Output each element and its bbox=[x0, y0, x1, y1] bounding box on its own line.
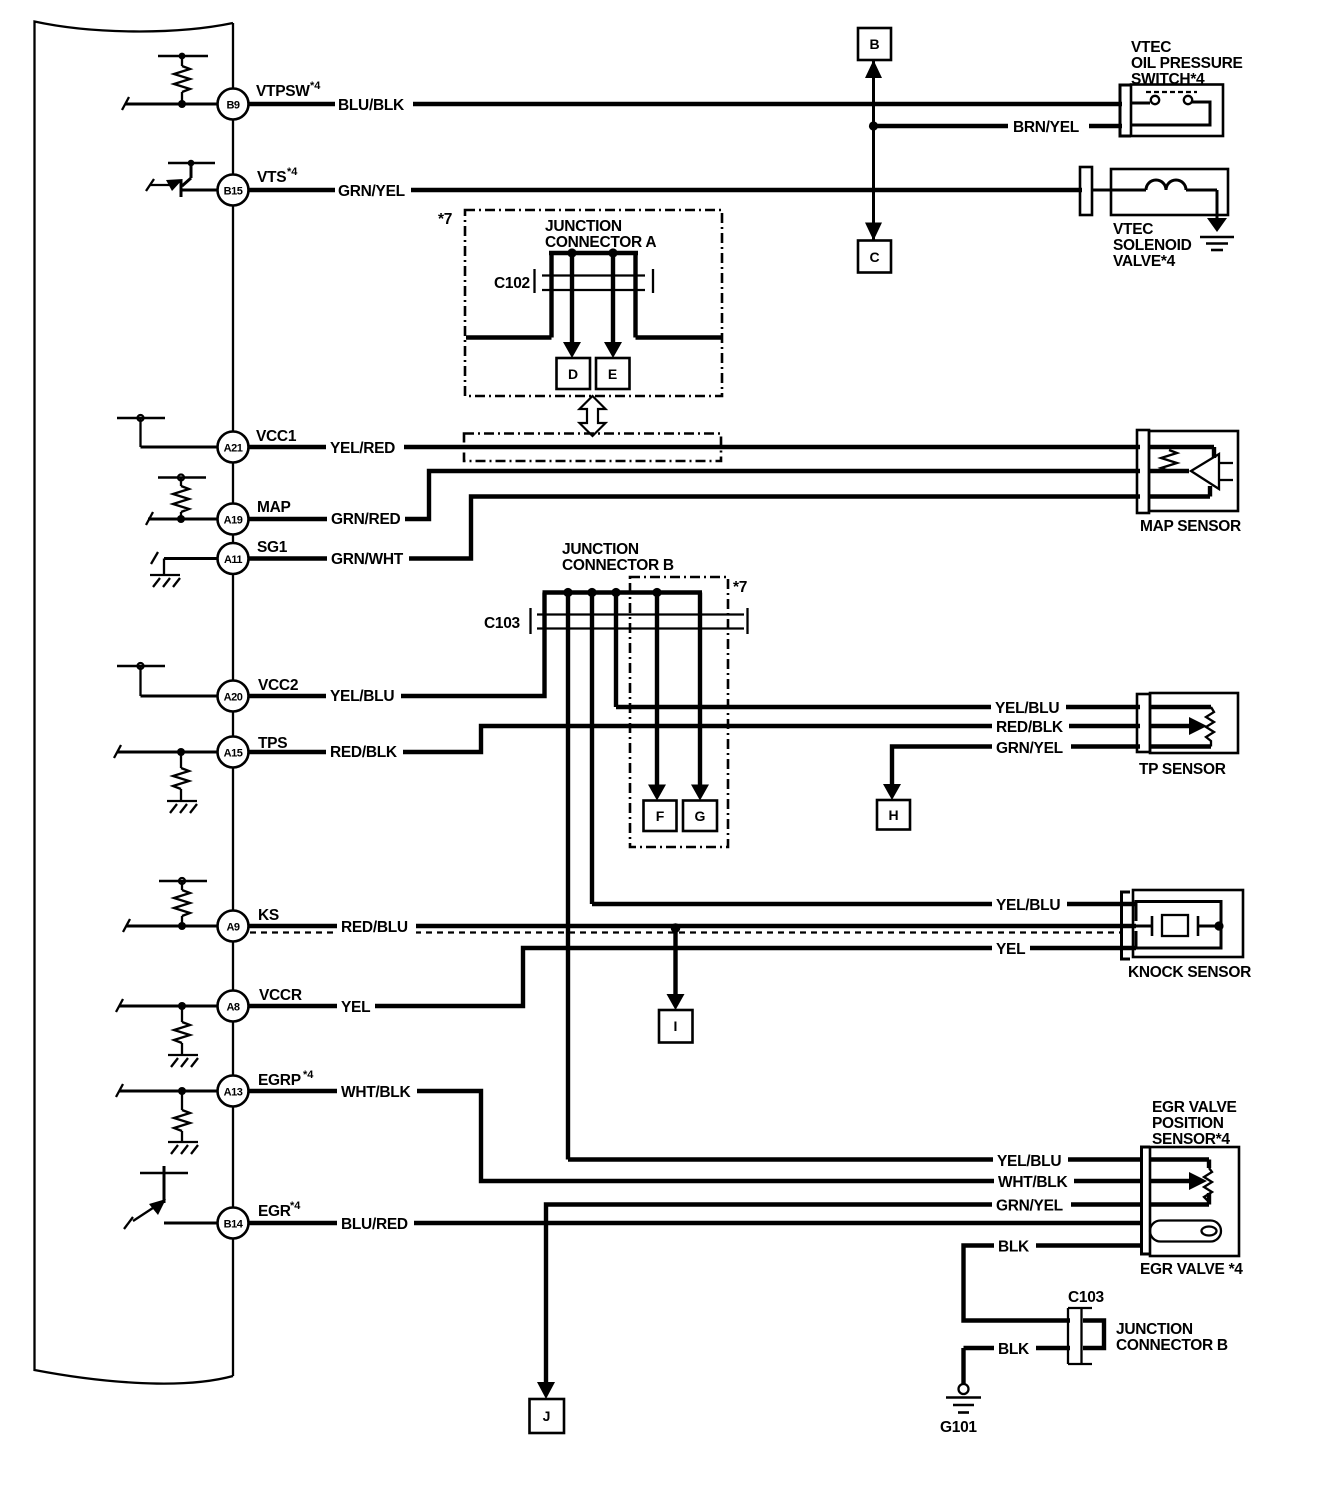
wire A21 YEL/RED bbox=[218, 445, 1140, 449]
label YEL knock bbox=[992, 939, 1030, 957]
svg-text:C: C bbox=[869, 249, 879, 265]
box F bbox=[644, 801, 677, 832]
symbol A20 VCC rail bbox=[117, 663, 218, 696]
symbol B14 driver transistor bbox=[124, 1166, 218, 1229]
svg-text:BLK: BLK bbox=[998, 1341, 1030, 1358]
svg-text:JUNCTION: JUNCTION bbox=[562, 541, 639, 558]
svg-text:KNOCK SENSOR: KNOCK SENSOR bbox=[1128, 964, 1251, 981]
node dot I branch bbox=[671, 923, 681, 933]
symbol A9 pull-up resistor bbox=[123, 878, 218, 932]
svg-text:*4: *4 bbox=[310, 80, 321, 92]
svg-text:YEL/BLU: YEL/BLU bbox=[997, 1153, 1061, 1170]
knock sensor connector bracket bbox=[1122, 892, 1131, 959]
connector C103 strip bbox=[531, 608, 748, 634]
svg-text:BRN/YEL: BRN/YEL bbox=[1013, 119, 1079, 136]
pin B15 bbox=[218, 175, 249, 206]
wire A13 WHT/BLK to EGR sensor bbox=[218, 1091, 1142, 1181]
label RED/BLK bbox=[326, 742, 403, 761]
svg-text:BLK: BLK bbox=[998, 1239, 1030, 1256]
svg-text:SOLENOID: SOLENOID bbox=[1113, 237, 1192, 254]
ground at solenoid valve bbox=[1200, 218, 1234, 250]
arrow to G bbox=[691, 785, 709, 801]
wire BLK to C103 bbox=[964, 1246, 1143, 1321]
arrow to I bbox=[667, 994, 685, 1010]
junction connector A bus bar and pins bbox=[549, 248, 638, 344]
pin A19 bbox=[218, 504, 249, 535]
svg-text:A19: A19 bbox=[224, 515, 243, 527]
svg-text:B9: B9 bbox=[226, 100, 239, 112]
svg-text:VTEC: VTEC bbox=[1131, 39, 1171, 56]
junction connector A C102 harness wire left bbox=[466, 335, 552, 339]
symbol A8 pull-down resistor bbox=[116, 999, 218, 1067]
svg-text:JUNCTION: JUNCTION bbox=[545, 218, 622, 235]
wire A8 YEL to knock sensor bbox=[218, 948, 1136, 1006]
svg-text:G: G bbox=[695, 808, 706, 824]
pin A20 bbox=[218, 681, 249, 712]
label YEL/RED bbox=[326, 438, 404, 457]
wire C103 to G vertical bbox=[698, 593, 702, 788]
svg-text:*7: *7 bbox=[438, 211, 452, 228]
svg-text:C102: C102 bbox=[494, 275, 530, 292]
svg-text:A20: A20 bbox=[224, 692, 243, 704]
svg-text:RED/BLU: RED/BLU bbox=[341, 919, 408, 936]
svg-text:TP SENSOR: TP SENSOR bbox=[1139, 761, 1226, 778]
VTEC solenoid valve bbox=[1092, 169, 1228, 220]
wire C103 to knock YEL/BLU vertical bbox=[590, 593, 594, 905]
wire EGR YEL/BLU bbox=[568, 1157, 1142, 1161]
svg-text:VALVE*4: VALVE*4 bbox=[1113, 253, 1176, 270]
knock sensor bbox=[1133, 890, 1243, 957]
VTEC oil pressure switch bbox=[1131, 85, 1223, 137]
svg-text:EGR VALVE: EGR VALVE bbox=[1152, 1099, 1237, 1116]
pin B9 bbox=[218, 89, 249, 120]
C103 staple link bbox=[1083, 1321, 1104, 1349]
svg-text:B15: B15 bbox=[224, 186, 243, 198]
svg-text:SENSOR*4: SENSOR*4 bbox=[1152, 1131, 1230, 1148]
box E bbox=[596, 358, 630, 389]
svg-text:SG1: SG1 bbox=[257, 539, 288, 556]
box G bbox=[683, 801, 717, 832]
symbol A19 pull-up resistor bbox=[146, 475, 218, 526]
VTEC oil pressure switch connector bracket bbox=[1120, 85, 1131, 136]
label WHT/BLK EGR bbox=[994, 1172, 1074, 1190]
svg-text:VTPSW: VTPSW bbox=[256, 83, 310, 100]
MAP sensor bbox=[1149, 431, 1238, 511]
svg-text:A15: A15 bbox=[224, 748, 243, 760]
junction connector B bus bar bbox=[543, 590, 703, 594]
label WHT/BLK bbox=[337, 1081, 417, 1101]
box J bbox=[530, 1399, 565, 1433]
svg-text:TPS: TPS bbox=[258, 735, 287, 752]
svg-text:CONNECTOR B: CONNECTOR B bbox=[1116, 1337, 1228, 1354]
box I bbox=[659, 1010, 693, 1043]
box D bbox=[557, 358, 591, 389]
svg-text:B: B bbox=[869, 36, 879, 52]
wire B15 GRN/YEL bbox=[218, 188, 1082, 192]
svg-text:YEL: YEL bbox=[341, 999, 370, 1016]
svg-text:G101: G101 bbox=[940, 1419, 977, 1436]
svg-text:WHT/BLK: WHT/BLK bbox=[998, 1174, 1068, 1191]
label YEL/BLU bbox=[326, 686, 401, 705]
svg-text:VCCR: VCCR bbox=[259, 987, 302, 1004]
ground G101 bbox=[946, 1384, 981, 1413]
svg-text:E: E bbox=[608, 366, 617, 382]
arrow to F bbox=[648, 785, 666, 801]
symbol A21 VCC rail bbox=[117, 415, 218, 447]
svg-text:I: I bbox=[674, 1018, 678, 1034]
arrow down to C bbox=[865, 223, 882, 241]
svg-text:J: J bbox=[543, 1408, 551, 1424]
label BLK bbox=[994, 1236, 1036, 1255]
svg-text:KS: KS bbox=[258, 907, 279, 924]
svg-text:VCC1: VCC1 bbox=[256, 428, 297, 445]
svg-text:C103: C103 bbox=[1068, 1289, 1105, 1306]
label RED/BLK TP bbox=[992, 717, 1069, 735]
svg-text:CONNECTOR A: CONNECTOR A bbox=[545, 234, 656, 251]
arrow up to B bbox=[865, 60, 882, 78]
svg-text:OIL PRESSURE: OIL PRESSURE bbox=[1131, 55, 1243, 72]
label GRN/YEL EGR bbox=[992, 1195, 1071, 1214]
pin A11 bbox=[218, 543, 249, 574]
svg-text:EGR: EGR bbox=[258, 1203, 291, 1220]
svg-text:YEL/BLU: YEL/BLU bbox=[995, 700, 1059, 717]
svg-text:VTS: VTS bbox=[257, 169, 286, 186]
svg-text:RED/BLK: RED/BLK bbox=[996, 719, 1064, 736]
label BLK2 bbox=[994, 1338, 1036, 1357]
svg-text:MAP SENSOR: MAP SENSOR bbox=[1140, 518, 1241, 535]
wire A9 RED/BLU to knock sensor bbox=[218, 924, 1136, 928]
svg-text:GRN/YEL: GRN/YEL bbox=[338, 183, 405, 200]
VTEC solenoid valve connector bbox=[1080, 167, 1092, 215]
arrow to D bbox=[563, 342, 581, 358]
svg-text:GRN/YEL: GRN/YEL bbox=[996, 740, 1063, 757]
pin B14 bbox=[218, 1208, 249, 1239]
MAP sensor connector bbox=[1137, 430, 1149, 513]
wire EGR GRN/YEL to J bbox=[546, 1205, 1142, 1385]
label GRN/YEL TP bbox=[992, 738, 1071, 756]
symbol A13 pull-down resistor bbox=[116, 1084, 218, 1154]
svg-text:*4: *4 bbox=[290, 1200, 301, 1212]
symbol B15 driver transistor bbox=[146, 160, 218, 197]
svg-text:H: H bbox=[888, 807, 898, 823]
dashed harness bus box bbox=[464, 434, 721, 462]
wire A20 YEL/BLU to C103 bbox=[218, 593, 545, 697]
pin A15 bbox=[218, 737, 249, 768]
svg-text:BLU/RED: BLU/RED bbox=[341, 1216, 408, 1233]
label YEL/BLU TP bbox=[991, 698, 1066, 716]
svg-text:YEL: YEL bbox=[996, 941, 1025, 958]
svg-text:WHT/BLK: WHT/BLK bbox=[341, 1084, 411, 1101]
wire A15 RED/BLK to TP sensor bbox=[218, 726, 1140, 752]
wire BLK2 down to ground bbox=[961, 1348, 965, 1384]
pin A21 bbox=[218, 432, 249, 463]
symbol B9 internal pull-up bbox=[122, 53, 218, 110]
svg-text:F: F bbox=[656, 808, 665, 824]
svg-text:B14: B14 bbox=[224, 1219, 244, 1231]
label RED/BLU bbox=[337, 916, 416, 936]
pin A8 bbox=[218, 991, 249, 1022]
svg-text:A11: A11 bbox=[224, 554, 242, 566]
svg-text:*7: *7 bbox=[733, 579, 747, 596]
connector C102 strip bbox=[535, 269, 654, 293]
box H bbox=[877, 800, 910, 830]
svg-text:A13: A13 bbox=[224, 1087, 243, 1099]
svg-text:JUNCTION: JUNCTION bbox=[1116, 1321, 1193, 1338]
TP sensor connector bbox=[1137, 694, 1150, 752]
junction connector B option box *7 bbox=[630, 577, 728, 847]
wire BRN/YEL bbox=[874, 124, 1123, 128]
wire C103 to F vertical bbox=[655, 593, 659, 788]
svg-text:GRN/YEL: GRN/YEL bbox=[996, 1198, 1063, 1215]
label BRN/YEL bbox=[1008, 117, 1089, 136]
wire knock YEL/BLU bbox=[592, 902, 1136, 906]
svg-text:C103: C103 bbox=[484, 615, 521, 632]
svg-text:YEL/BLU: YEL/BLU bbox=[996, 897, 1060, 914]
TP sensor bbox=[1150, 693, 1238, 753]
wire A19 GRN/RED bbox=[218, 471, 1140, 519]
wire B14 BLU/RED bbox=[218, 1221, 1142, 1225]
svg-text:A9: A9 bbox=[226, 922, 239, 934]
svg-text:EGRP: EGRP bbox=[258, 1072, 301, 1089]
EGR valve position sensor and EGR valve bbox=[1150, 1147, 1239, 1256]
box C bbox=[858, 241, 891, 273]
symbol A15 pull-down resistor bbox=[114, 745, 218, 813]
label GRN/YEL bbox=[335, 181, 411, 200]
svg-text:GRN/RED: GRN/RED bbox=[331, 511, 400, 528]
arrow to E bbox=[604, 342, 622, 358]
node dots on C103 bar bbox=[563, 588, 572, 597]
svg-text:A21: A21 bbox=[224, 443, 243, 455]
svg-text:A8: A8 bbox=[226, 1002, 239, 1014]
wire branch to I bbox=[673, 928, 677, 996]
symbol A11 ground bbox=[150, 552, 218, 587]
label GRN/RED bbox=[327, 509, 405, 528]
ECM connector torn outline bbox=[35, 22, 234, 1384]
node junction dot BRN/YEL bbox=[869, 121, 878, 130]
arrow to H bbox=[883, 784, 901, 800]
svg-text:GRN/WHT: GRN/WHT bbox=[331, 551, 404, 568]
svg-text:YEL/BLU: YEL/BLU bbox=[330, 688, 394, 705]
connector C103 strip bottom bbox=[1068, 1308, 1092, 1364]
pin A9 bbox=[218, 911, 249, 942]
wire TP YEL/BLU bbox=[616, 705, 1140, 709]
double-headed option arrow bbox=[580, 396, 606, 436]
wire C103 to TP YEL/BLU vertical bbox=[614, 593, 618, 708]
label YEL bbox=[337, 996, 375, 1016]
svg-text:EGR VALVE *4: EGR VALVE *4 bbox=[1140, 1261, 1243, 1278]
svg-text:VCC2: VCC2 bbox=[258, 677, 298, 694]
label YEL/BLU EGR bbox=[993, 1151, 1068, 1169]
svg-text:*4: *4 bbox=[287, 166, 298, 178]
svg-text:SWITCH*4: SWITCH*4 bbox=[1131, 71, 1205, 88]
wire BLK2 to C103 bbox=[964, 1346, 1071, 1350]
wire TP GRN/YEL with H branch bbox=[892, 747, 1140, 787]
shield dashed line bbox=[250, 931, 1121, 933]
svg-text:CONNECTOR B: CONNECTOR B bbox=[562, 557, 674, 574]
junction connector A C102 harness wire right bbox=[636, 335, 722, 339]
pin A13 bbox=[218, 1076, 249, 1107]
label GRN/WHT bbox=[327, 549, 409, 568]
wire B9 BLU/BLK bbox=[218, 102, 1122, 106]
label YEL/BLU knock bbox=[992, 895, 1067, 913]
box B bbox=[858, 28, 891, 60]
ECM connector pin column line bbox=[232, 23, 234, 1376]
EGR sensor connector bracket bbox=[1142, 1147, 1151, 1254]
svg-text:POSITION: POSITION bbox=[1152, 1115, 1224, 1132]
wire B-C interconnect vertical bbox=[872, 60, 875, 241]
svg-text:RED/BLK: RED/BLK bbox=[330, 744, 398, 761]
label BLU/RED bbox=[337, 1213, 414, 1233]
svg-text:BLU/BLK: BLU/BLK bbox=[338, 97, 405, 114]
svg-text:YEL/RED: YEL/RED bbox=[330, 440, 395, 457]
svg-text:*4: *4 bbox=[303, 1069, 314, 1081]
svg-text:VTEC: VTEC bbox=[1113, 221, 1153, 238]
wire A11 GRN/WHT bbox=[218, 497, 1140, 559]
wire C103 to EGR YEL/BLU vertical bbox=[566, 593, 570, 1160]
label BLU/BLK bbox=[335, 95, 413, 114]
svg-text:D: D bbox=[568, 366, 578, 382]
junction connector A dashed option box *7 bbox=[465, 210, 722, 396]
arrow to J bbox=[537, 1382, 555, 1399]
svg-text:MAP: MAP bbox=[257, 499, 291, 516]
